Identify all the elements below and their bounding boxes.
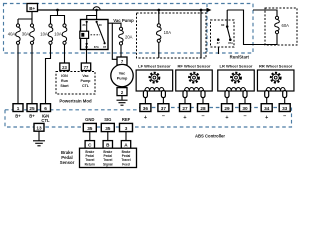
- svg-text:CTL: CTL: [82, 84, 90, 88]
- wire: 30A fuse to pin 25: [31, 44, 33, 103]
- svg-text:RR Wheel Sensor: RR Wheel Sensor: [259, 63, 293, 68]
- svg-text:77: 77: [84, 65, 89, 70]
- svg-text:Powertrain Mod: Powertrain Mod: [59, 99, 92, 104]
- wire: pin 3 to connector A: [125, 132, 127, 141]
- svg-text:SIG: SIG: [104, 117, 111, 122]
- LR sensor terminals: [225, 91, 247, 98]
- junction: 10A fuse tap: [157, 9, 160, 12]
- battery/ignition compartment (dashed blue box): [4, 4, 254, 54]
- svg-text:+: +: [183, 115, 186, 121]
- ABS controller boundary (dashed blue): [5, 108, 292, 128]
- wire: RF sensor to pins: [185, 98, 203, 104]
- svg-text:30: 30: [242, 106, 248, 111]
- wire: 10A fuse to powertrain pin 23: [64, 44, 66, 63]
- RF sensor terminals: [183, 91, 205, 98]
- switch arm: [227, 27, 230, 38]
- svg-text:29: 29: [224, 106, 230, 111]
- svg-text:87A: 87A: [94, 45, 99, 49]
- ABS pin 33: [279, 104, 290, 112]
- svg-text:Run/Start: Run/Start: [230, 54, 250, 59]
- powertrain pin functions: [60, 74, 91, 88]
- ABS pin 1: [13, 104, 23, 119]
- wire: pin 35 to connector B: [107, 132, 109, 141]
- svg-text:87A: 87A: [228, 41, 233, 45]
- switch terminal 87: [217, 38, 220, 41]
- svg-text:Return: Return: [85, 162, 95, 166]
- svg-text:IGN: IGN: [61, 74, 68, 78]
- svg-text:Run: Run: [61, 79, 68, 83]
- ABS pin 29: [222, 104, 233, 112]
- svg-text:B+: B+: [15, 113, 21, 118]
- svg-text:27: 27: [182, 106, 188, 111]
- svg-text:40A: 40A: [8, 32, 16, 37]
- svg-text:B+: B+: [29, 113, 35, 118]
- wire: bus to relay terminals: [87, 10, 97, 22]
- svg-text:13: 13: [36, 126, 42, 131]
- fuse 10A (b): [54, 24, 67, 45]
- wire: B+ bus: [38, 9, 208, 11]
- svg-text:+: +: [144, 115, 147, 121]
- wire: 10A fuse to pin 6: [46, 44, 51, 103]
- svg-text:87: 87: [103, 45, 106, 49]
- relay terminal 85: [86, 43, 88, 45]
- svg-text:B+: B+: [29, 6, 35, 11]
- svg-text:30A: 30A: [22, 32, 30, 37]
- svg-text:+: +: [265, 115, 268, 121]
- battery B+ terminal: [27, 4, 38, 12]
- wire: relay 87 to 20A fuse: [108, 23, 121, 27]
- vac pump pin 7: [117, 57, 127, 65]
- RR sensor terminals: [265, 91, 287, 98]
- svg-text:–: –: [243, 114, 246, 120]
- relay switch arm: [97, 22, 105, 43]
- wire: 20A fuse to pin 7: [120, 45, 122, 57]
- svg-text:REF: REF: [122, 117, 131, 122]
- wire: bus to 10A fuse: [158, 10, 160, 24]
- brake pedal sensor pin functions: [85, 150, 131, 167]
- svg-text:35: 35: [105, 126, 111, 131]
- ABS pin 28: [198, 104, 209, 112]
- svg-text:Feed: Feed: [122, 162, 129, 166]
- connector A: [121, 141, 130, 149]
- ABS pin 37: [158, 104, 169, 112]
- Brake Pedal Sensor label: [60, 150, 75, 165]
- wire: RR sensor to pins: [267, 98, 285, 104]
- ABS pin 30: [240, 104, 251, 112]
- svg-text:30: 30: [99, 23, 102, 27]
- svg-text:ABS Controller: ABS Controller: [195, 134, 225, 139]
- switch terminal 30: [226, 25, 229, 28]
- svg-text:28: 28: [200, 106, 206, 111]
- svg-text:1: 1: [17, 106, 20, 111]
- svg-text:GND: GND: [85, 117, 94, 122]
- svg-text:Signal: Signal: [103, 162, 113, 166]
- svg-text:20A: 20A: [125, 35, 133, 40]
- svg-text:CTL: CTL: [41, 118, 50, 123]
- compartment divider: [206, 4, 208, 54]
- svg-text:+: +: [225, 115, 228, 121]
- LF sensor terminals: [143, 91, 165, 98]
- bus arrow end: [207, 8, 212, 12]
- svg-text:6: 6: [44, 106, 47, 111]
- svg-text:10A: 10A: [54, 32, 62, 37]
- ABS pin 6: [41, 104, 51, 119]
- vac pump motor: [111, 64, 133, 86]
- svg-text:60A: 60A: [282, 23, 290, 28]
- wire: LR sensor to pins: [227, 98, 245, 104]
- svg-text:35: 35: [87, 126, 93, 131]
- wire: 40A fuse to pin 1: [17, 44, 19, 103]
- junction: relay tap (bump): [93, 7, 100, 10]
- RF Wheel Sensor: [176, 63, 213, 91]
- wire: pin 35 to connector C: [89, 132, 91, 141]
- junction: 10A pair tap: [56, 9, 59, 12]
- fuse 60A: [275, 16, 289, 34]
- LF Wheel Sensor: [136, 63, 173, 91]
- wire: switch output: [218, 47, 220, 54]
- svg-text:Pump: Pump: [117, 76, 128, 80]
- 60A fuse holder (dashed box): [265, 8, 297, 45]
- relay terminal 86: [86, 21, 88, 23]
- RR Wheel Sensor: [257, 63, 294, 91]
- wire: feed to 60A fuse: [253, 10, 277, 16]
- wire: relay feed to pin 7 (left drop): [112, 23, 117, 59]
- svg-text:10A: 10A: [40, 32, 48, 37]
- wire: 60A fuse to ignition switch: [227, 10, 277, 45]
- svg-text:–: –: [162, 114, 165, 120]
- connector C: [85, 141, 94, 149]
- svg-text:34: 34: [264, 106, 270, 111]
- ignition switch Run/Start (dashed box): [211, 20, 235, 47]
- relay terminal 30: [96, 21, 98, 23]
- wire: 10A fuse drop: [158, 42, 160, 58]
- relay: Vac Pump relay box: [81, 20, 109, 50]
- wire: 60A fuse to switch 30: [226, 10, 228, 25]
- svg-text:Sensor: Sensor: [60, 160, 75, 165]
- ABS pin 34: [261, 104, 272, 112]
- ABS pin 3 (REF): [120, 123, 133, 131]
- LR Wheel Sensor: [218, 63, 255, 91]
- svg-text:33: 33: [282, 106, 288, 111]
- wire: B+ to 40A/30A fuses: [18, 12, 32, 24]
- relay pin labels: [83, 23, 107, 49]
- fuse 30A: [22, 24, 35, 45]
- wire: bus right drop: [200, 10, 202, 58]
- wire: pin 13 to ground: [38, 131, 40, 140]
- svg-text:25: 25: [29, 106, 35, 111]
- ABS pin 27: [180, 104, 191, 112]
- ground (vac pump): [117, 96, 128, 106]
- brake pedal sensor box: [80, 148, 137, 167]
- fuse 20A: [119, 27, 133, 45]
- wire: LF sensor to pins: [145, 98, 163, 104]
- junction: right drop tap: [200, 9, 203, 12]
- fuse panel (dashed black box): [137, 13, 207, 58]
- fuse 10A (c): [156, 24, 171, 43]
- svg-text:–: –: [283, 114, 286, 120]
- svg-text:–: –: [201, 114, 204, 120]
- ABS pin 36: [140, 104, 151, 112]
- svg-text:Vac: Vac: [82, 74, 88, 78]
- svg-text:10A: 10A: [164, 30, 172, 35]
- ABS pin 13: [34, 123, 44, 131]
- powertrain module (dashed box): [56, 72, 95, 95]
- svg-text:Vac: Vac: [119, 72, 126, 76]
- svg-text:23: 23: [62, 65, 67, 70]
- ABS pin 35 (GND): [83, 123, 96, 131]
- svg-text:Pump: Pump: [81, 79, 92, 83]
- vac pump pin 2: [117, 88, 127, 96]
- wire: bus to 10A pair: [51, 10, 65, 24]
- powertrain pin 23: [60, 63, 69, 71]
- ground (ABS pin 13): [33, 141, 45, 146]
- svg-text:LF Wheel Sensor: LF Wheel Sensor: [138, 63, 171, 68]
- wire: relay 85 to powertrain pin 77: [86, 44, 88, 63]
- svg-text:LR Wheel Sensor: LR Wheel Sensor: [220, 63, 253, 68]
- ABS pin 25: [27, 104, 37, 119]
- fuse 40A: [8, 24, 21, 45]
- svg-text:Vac Pump: Vac Pump: [113, 18, 134, 23]
- powertrain pin 77: [81, 63, 90, 71]
- svg-text:RF Wheel Sensor: RF Wheel Sensor: [178, 63, 211, 68]
- relay coil: [80, 22, 89, 44]
- svg-text:86: 86: [83, 23, 86, 27]
- fuse 10A (a): [40, 24, 53, 45]
- connector B: [103, 141, 112, 149]
- relay actuator dashed link: [91, 34, 101, 36]
- svg-text:37: 37: [161, 106, 167, 111]
- ABS pin 35 (SIG): [101, 123, 114, 131]
- relay terminal 87A: [104, 42, 106, 44]
- switch terminal 87A: [229, 38, 232, 41]
- svg-text:30: 30: [221, 23, 225, 27]
- svg-text:3: 3: [125, 126, 128, 131]
- svg-text:36: 36: [143, 106, 149, 111]
- svg-text:Start: Start: [60, 84, 69, 88]
